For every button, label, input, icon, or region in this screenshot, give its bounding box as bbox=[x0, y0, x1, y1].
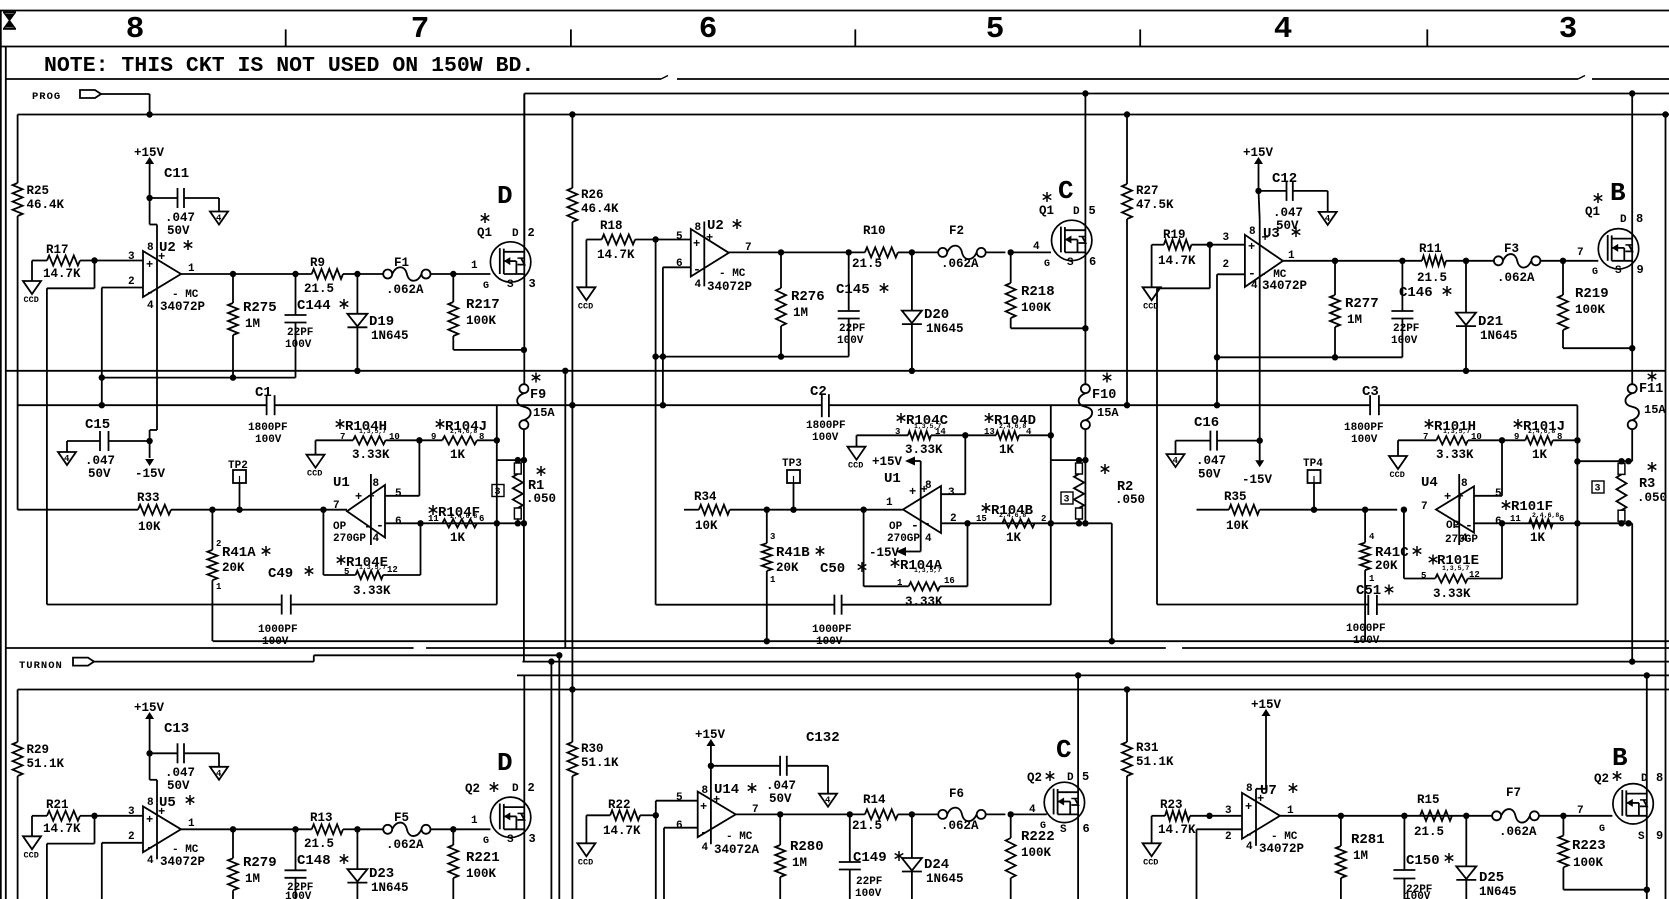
svg-text:50V: 50V bbox=[88, 467, 111, 481]
svg-text:U1: U1 bbox=[333, 475, 350, 491]
svg-text:21.5: 21.5 bbox=[304, 837, 334, 851]
transistor Q1 (C) bbox=[1046, 192, 1048, 202]
svg-text:4: 4 bbox=[216, 769, 222, 779]
svg-text:21.5: 21.5 bbox=[852, 819, 882, 833]
svg-text:100K: 100K bbox=[1573, 856, 1604, 870]
svg-text:3: 3 bbox=[1064, 495, 1070, 506]
interchange vertical x=551.4 bbox=[550, 662, 552, 899]
svg-text:1M: 1M bbox=[792, 856, 807, 870]
svg-text:2: 2 bbox=[216, 539, 221, 549]
svg-text:R41A: R41A bbox=[222, 545, 256, 561]
svg-text:-15V: -15V bbox=[869, 546, 900, 560]
feedback loop left leg (B) bbox=[1209, 245, 1211, 289]
svg-text:-: - bbox=[146, 285, 154, 300]
svg-text:21.5: 21.5 bbox=[1414, 825, 1444, 839]
svg-text:CCD: CCD bbox=[578, 857, 593, 867]
resistor R29 bbox=[13, 742, 23, 776]
svg-text:+: + bbox=[1457, 490, 1464, 504]
bottom rail y=604.5 (B) bbox=[1157, 604, 1368, 606]
svg-text:R30: R30 bbox=[581, 742, 604, 756]
rail y=357.3 (B) bbox=[1217, 356, 1402, 358]
svg-text:+: + bbox=[146, 258, 153, 272]
svg-text:CCD: CCD bbox=[24, 850, 39, 860]
svg-text:R219: R219 bbox=[1575, 286, 1609, 302]
svg-text:R281: R281 bbox=[1351, 832, 1385, 848]
svg-text:.062A: .062A bbox=[386, 838, 424, 852]
svg-text:100V: 100V bbox=[255, 434, 282, 446]
svg-text:8: 8 bbox=[373, 478, 380, 490]
svg-text:50V: 50V bbox=[769, 792, 792, 806]
svg-text:1,3,5,7: 1,3,5,7 bbox=[914, 567, 941, 574]
svg-text:G: G bbox=[1044, 259, 1050, 270]
svg-text:C13: C13 bbox=[164, 721, 189, 737]
svg-text:8: 8 bbox=[147, 797, 154, 809]
bus y=371 source rail bbox=[6, 370, 1666, 372]
svg-text:21.5: 21.5 bbox=[304, 282, 334, 296]
op-amp U3 bbox=[1245, 235, 1283, 287]
svg-text:4: 4 bbox=[64, 454, 70, 464]
CCD ground for R21 bbox=[31, 816, 33, 837]
svg-text:1K: 1K bbox=[1530, 531, 1546, 545]
feedback loop left leg bbox=[94, 261, 96, 289]
svg-text:1: 1 bbox=[471, 260, 478, 272]
resistor R25 bbox=[13, 183, 23, 216]
svg-text:3.33K: 3.33K bbox=[1436, 448, 1474, 462]
svg-text:.062A: .062A bbox=[1497, 271, 1535, 285]
node bus-to-R25 vertical bbox=[17, 115, 19, 184]
svg-text:4: 4 bbox=[1325, 214, 1331, 224]
feedback left leg (bottom D) bbox=[94, 816, 96, 844]
fuse F9 bbox=[519, 384, 528, 393]
svg-text:G: G bbox=[483, 836, 489, 847]
svg-text:15A: 15A bbox=[1097, 406, 1119, 420]
svg-text:9: 9 bbox=[1656, 829, 1663, 843]
op-amp U2 bbox=[143, 251, 181, 297]
svg-text:C16: C16 bbox=[1194, 415, 1219, 431]
svg-text:100K: 100K bbox=[1021, 846, 1052, 860]
resistor R219 bbox=[1560, 258, 1566, 264]
svg-text:50V: 50V bbox=[167, 224, 190, 238]
resistor R223 bbox=[1560, 813, 1566, 819]
svg-text:+: + bbox=[1257, 792, 1264, 806]
svg-text:+: + bbox=[1248, 240, 1255, 254]
svg-text:100V: 100V bbox=[1353, 635, 1380, 647]
svg-text:D23: D23 bbox=[369, 866, 394, 882]
svg-text:20K: 20K bbox=[1375, 559, 1398, 573]
svg-text:+: + bbox=[921, 483, 928, 497]
svg-text:6: 6 bbox=[479, 514, 484, 524]
svg-text:F6: F6 bbox=[949, 787, 964, 801]
X line end corner to R101J node bbox=[1576, 405, 1578, 440]
resistor R281 bbox=[1340, 816, 1342, 846]
svg-text:C1: C1 bbox=[255, 385, 272, 401]
svg-text:.047: .047 bbox=[85, 454, 115, 468]
svg-text:1000PF: 1000PF bbox=[258, 624, 298, 636]
svg-text:34072P: 34072P bbox=[1262, 279, 1307, 293]
svg-text:100V: 100V bbox=[1391, 335, 1418, 347]
inverting vertical x=662.9 (C) bbox=[662, 267, 664, 405]
svg-text:6: 6 bbox=[1559, 514, 1564, 524]
svg-text:CCD: CCD bbox=[578, 301, 593, 311]
wire R23 to U7 pin3 bbox=[1206, 813, 1212, 819]
svg-text:7: 7 bbox=[411, 12, 430, 47]
svg-text:Q1: Q1 bbox=[1039, 204, 1054, 218]
svg-text:2,4,6,8: 2,4,6,8 bbox=[450, 513, 477, 520]
svg-text:R29: R29 bbox=[27, 743, 50, 757]
svg-text:22PF: 22PF bbox=[287, 327, 313, 339]
X line corner and feedback vertical (D) bbox=[494, 437, 500, 443]
svg-text:D21: D21 bbox=[1478, 314, 1503, 330]
Q2B drain/source on x=1646.8 bbox=[1644, 672, 1650, 678]
svg-text:S: S bbox=[1067, 257, 1074, 269]
svg-text:14.7K: 14.7K bbox=[1158, 823, 1196, 837]
svg-text:R3: R3 bbox=[1639, 477, 1655, 492]
svg-text:7: 7 bbox=[1577, 247, 1584, 259]
svg-text:9: 9 bbox=[1637, 263, 1644, 277]
resistor R217 bbox=[450, 271, 456, 277]
diode D25 bbox=[1463, 813, 1469, 819]
svg-text:S: S bbox=[1638, 831, 1645, 843]
svg-text:10: 10 bbox=[389, 432, 400, 442]
resistor R30 bbox=[567, 742, 577, 776]
svg-text:+: + bbox=[706, 231, 713, 245]
svg-text:C11: C11 bbox=[164, 166, 189, 182]
svg-text:1800PF: 1800PF bbox=[248, 422, 288, 434]
hourglass revision mark bbox=[3, 12, 16, 29]
svg-text:5: 5 bbox=[1089, 204, 1096, 218]
svg-text:100V: 100V bbox=[262, 636, 289, 648]
svg-text:C144: C144 bbox=[297, 298, 331, 314]
interchange vertical x=523.9 bbox=[523, 523, 525, 661]
resistor R41C bbox=[1362, 507, 1368, 513]
fuse F11 bbox=[1628, 384, 1637, 393]
svg-text:22PF: 22PF bbox=[839, 323, 865, 335]
svg-text:1N645: 1N645 bbox=[1480, 329, 1518, 343]
svg-text:1N645: 1N645 bbox=[371, 329, 409, 343]
svg-text:6: 6 bbox=[1083, 822, 1090, 836]
svg-text:D: D bbox=[512, 783, 519, 795]
svg-text:.062A: .062A bbox=[941, 819, 979, 833]
svg-text:3: 3 bbox=[1223, 232, 1230, 244]
svg-text:D: D bbox=[512, 228, 519, 240]
drain bus y=93.5 bbox=[524, 93, 1669, 95]
svg-text:D20: D20 bbox=[924, 307, 949, 323]
svg-text:1N645: 1N645 bbox=[1479, 885, 1517, 899]
svg-text:S: S bbox=[507, 834, 514, 846]
svg-text:6: 6 bbox=[1089, 255, 1096, 269]
svg-text:- MC: - MC bbox=[726, 831, 753, 843]
svg-text:13: 13 bbox=[984, 427, 995, 437]
node bus-to-R27 vertical bbox=[1124, 111, 1130, 117]
svg-text:3: 3 bbox=[1595, 484, 1601, 495]
svg-text:R25: R25 bbox=[27, 184, 50, 198]
svg-text:21.5: 21.5 bbox=[852, 257, 882, 271]
svg-text:5: 5 bbox=[986, 12, 1005, 47]
svg-text:22PF: 22PF bbox=[1393, 323, 1419, 335]
diode D21 bbox=[1463, 258, 1469, 264]
svg-text:15: 15 bbox=[976, 514, 987, 524]
svg-text:20K: 20K bbox=[776, 561, 799, 575]
svg-text:6: 6 bbox=[676, 258, 683, 270]
svg-text:4: 4 bbox=[373, 533, 380, 545]
svg-text:8: 8 bbox=[702, 785, 709, 797]
svg-text:4: 4 bbox=[1033, 241, 1040, 253]
svg-text:1,3,5,7: 1,3,5,7 bbox=[359, 564, 386, 571]
output wire U14 pin7 bbox=[736, 813, 865, 815]
svg-text:15A: 15A bbox=[1644, 403, 1666, 417]
svg-text:5: 5 bbox=[1082, 770, 1089, 784]
bottom rail y=604.7 (C) bbox=[656, 604, 835, 606]
svg-text:4: 4 bbox=[925, 533, 932, 545]
sense resistor R1 bbox=[523, 429, 525, 523]
diode D23 bbox=[354, 826, 360, 832]
svg-text:2: 2 bbox=[528, 226, 535, 240]
node bus-to-R31 vertical bbox=[1124, 686, 1130, 692]
wire F7 to Q2B gate bbox=[1563, 815, 1612, 817]
svg-text:R277: R277 bbox=[1345, 296, 1379, 312]
svg-text:8: 8 bbox=[1461, 478, 1468, 490]
svg-text:-: - bbox=[693, 262, 701, 277]
svg-text:R41B: R41B bbox=[776, 545, 810, 561]
svg-text:1K: 1K bbox=[999, 443, 1015, 457]
svg-text:.047: .047 bbox=[165, 766, 195, 780]
interchange vertical x=559.3 bbox=[558, 655, 560, 899]
svg-text:1000PF: 1000PF bbox=[812, 624, 852, 636]
line y=661.6 bbox=[522, 661, 1669, 663]
svg-text:U1: U1 bbox=[884, 471, 901, 487]
svg-text:34072P: 34072P bbox=[707, 280, 752, 294]
svg-text:5: 5 bbox=[344, 567, 349, 577]
svg-text:C2: C2 bbox=[810, 384, 827, 400]
resistor R41A bbox=[209, 507, 215, 513]
wire +15 to U5 pin8 bbox=[149, 753, 151, 780]
svg-text:4: 4 bbox=[1029, 804, 1036, 816]
svg-text:7: 7 bbox=[340, 432, 345, 442]
sense resistor R3 bbox=[1631, 429, 1633, 461]
transistor Q1 top D bbox=[484, 213, 486, 223]
X line y=405.2 bbox=[18, 404, 267, 406]
svg-text:100K: 100K bbox=[466, 314, 497, 328]
svg-text:10K: 10K bbox=[695, 519, 718, 533]
rail y=356.6 (C) bbox=[656, 356, 849, 358]
svg-text:D: D bbox=[1073, 206, 1080, 218]
-15V arrow (B) bbox=[1259, 441, 1261, 461]
svg-text:Q2: Q2 bbox=[1594, 772, 1609, 786]
svg-text:R10: R10 bbox=[863, 224, 886, 238]
svg-text:1M: 1M bbox=[245, 872, 260, 886]
svg-text:R218: R218 bbox=[1021, 284, 1055, 300]
block C box left vertical bbox=[523, 94, 525, 241]
svg-text:G: G bbox=[1592, 267, 1598, 278]
svg-text:1M: 1M bbox=[245, 317, 260, 331]
svg-text:1: 1 bbox=[886, 497, 893, 509]
zone ticks bbox=[285, 29, 287, 46]
svg-text:C132: C132 bbox=[806, 730, 840, 746]
svg-text:8: 8 bbox=[1656, 771, 1663, 785]
svg-text:R222: R222 bbox=[1021, 829, 1055, 845]
svg-text:D: D bbox=[497, 181, 513, 211]
svg-text:46.4K: 46.4K bbox=[27, 198, 65, 212]
svg-text:+: + bbox=[1444, 490, 1451, 504]
diode D24 bbox=[909, 811, 915, 817]
svg-text:14.7K: 14.7K bbox=[603, 824, 641, 838]
CCD ground for R101H bbox=[1397, 440, 1399, 456]
svg-text:R280: R280 bbox=[790, 839, 824, 855]
svg-text:14.7K: 14.7K bbox=[43, 267, 81, 281]
svg-text:6: 6 bbox=[395, 516, 402, 528]
svg-text:.050: .050 bbox=[1115, 493, 1145, 507]
noninv node vertical x=655.6 bbox=[655, 240, 657, 605]
ground 4 for C12 bbox=[1319, 212, 1337, 225]
fuse F10 bbox=[1081, 384, 1090, 393]
svg-text:NOTE: THIS CKT IS NOT USED ON: NOTE: THIS CKT IS NOT USED ON 150W BD. bbox=[44, 54, 534, 78]
svg-text:5: 5 bbox=[1421, 571, 1426, 581]
wire R17 to U2 pin3 bbox=[91, 257, 97, 263]
svg-text:C148: C148 bbox=[297, 853, 331, 869]
svg-text:8: 8 bbox=[1557, 432, 1562, 442]
svg-text:100K: 100K bbox=[1021, 301, 1052, 315]
svg-text:-15V: -15V bbox=[1242, 473, 1273, 487]
svg-text:1800PF: 1800PF bbox=[806, 420, 846, 432]
sheet header bottom line bbox=[0, 46, 1669, 48]
resistor R26 bbox=[567, 188, 577, 222]
svg-text:OP: OP bbox=[889, 521, 903, 533]
svg-text:R223: R223 bbox=[1572, 838, 1606, 854]
svg-text:-15V: -15V bbox=[135, 467, 166, 481]
svg-text:C: C bbox=[1056, 735, 1072, 765]
svg-text:B: B bbox=[1612, 743, 1628, 773]
svg-text:4: 4 bbox=[695, 279, 702, 291]
svg-text:5: 5 bbox=[395, 488, 402, 500]
svg-text:D19: D19 bbox=[369, 314, 394, 330]
svg-text:1,3,5,7: 1,3,5,7 bbox=[1443, 428, 1470, 435]
svg-text:-: - bbox=[700, 825, 708, 840]
Q2C drain-source vertical bbox=[1075, 672, 1081, 678]
left border outer bbox=[0, 11, 2, 899]
svg-text:F7: F7 bbox=[1506, 786, 1521, 800]
svg-text:R14: R14 bbox=[863, 793, 886, 807]
svg-text:+: + bbox=[693, 237, 700, 251]
wire F6 to Q2C gate bbox=[1011, 813, 1047, 815]
wire R22 to U14 pin5 bbox=[653, 812, 659, 818]
wire TURNON net bbox=[94, 661, 314, 663]
wire F3 to Q1B gate bbox=[1563, 260, 1598, 262]
Q1C drain-source vertical bbox=[1082, 90, 1088, 96]
svg-text:51.1K: 51.1K bbox=[1136, 755, 1174, 769]
svg-text:1K: 1K bbox=[450, 531, 466, 545]
svg-text:10: 10 bbox=[1471, 432, 1482, 442]
svg-text:-: - bbox=[1245, 827, 1253, 842]
svg-text:50V: 50V bbox=[167, 779, 190, 793]
feedback vertical (B) bbox=[1574, 437, 1580, 443]
resistor network R104D bbox=[988, 413, 990, 423]
svg-text:C49: C49 bbox=[268, 566, 293, 582]
svg-text:34072P: 34072P bbox=[160, 300, 205, 314]
op-amp U2* (C) bbox=[691, 229, 729, 277]
wire +15 to U2 pin8 bbox=[149, 198, 151, 225]
svg-text:2,4,6,8: 2,4,6,8 bbox=[450, 428, 477, 435]
line y=641.2 bbox=[213, 640, 1669, 642]
svg-text:+: + bbox=[158, 250, 165, 264]
CCD ground for R17 bbox=[31, 261, 33, 282]
svg-text:+15V: +15V bbox=[695, 728, 726, 742]
resistor R277 bbox=[1334, 261, 1336, 295]
svg-text:TP4: TP4 bbox=[1303, 458, 1323, 470]
svg-text:3.33K: 3.33K bbox=[905, 595, 943, 609]
svg-text:.062A: .062A bbox=[386, 283, 424, 297]
svg-text:+: + bbox=[368, 490, 375, 504]
svg-text:CCD: CCD bbox=[24, 295, 39, 305]
noninv vertical (bottom C) bbox=[655, 815, 657, 899]
right edge vertical x=1646.8 bottom bbox=[1646, 675, 1648, 899]
svg-text:10K: 10K bbox=[138, 520, 161, 534]
svg-text:12: 12 bbox=[387, 565, 398, 575]
svg-text:.062A: .062A bbox=[941, 257, 979, 271]
svg-text:-: - bbox=[376, 518, 384, 533]
svg-text:3: 3 bbox=[128, 806, 135, 818]
note underline wire bbox=[6, 78, 661, 80]
resistor R276 bbox=[780, 252, 782, 288]
svg-text:+: + bbox=[355, 490, 362, 504]
svg-text:R18: R18 bbox=[600, 219, 623, 233]
resistor network R104A bbox=[894, 558, 896, 568]
svg-text:100V: 100V bbox=[1351, 434, 1378, 446]
CCD ground for R22 bbox=[585, 815, 587, 843]
Q1B drain-source vertical bbox=[1629, 90, 1635, 96]
svg-text:Q2: Q2 bbox=[465, 782, 480, 796]
svg-text:OP: OP bbox=[333, 521, 347, 533]
diode D20 bbox=[909, 249, 915, 255]
CCD ground for R19 bbox=[1151, 245, 1153, 288]
net box 3 (C) bbox=[1061, 492, 1073, 504]
svg-text:+: + bbox=[700, 800, 707, 814]
svg-text:D: D bbox=[1067, 772, 1074, 784]
resistor R222 bbox=[1008, 811, 1014, 817]
svg-text:1M: 1M bbox=[1353, 849, 1368, 863]
wire F5 to Q2 gate bbox=[453, 828, 490, 830]
svg-text:OP: OP bbox=[1446, 520, 1460, 532]
svg-text:46.4K: 46.4K bbox=[581, 202, 619, 216]
op-amp U14 bbox=[698, 792, 736, 838]
svg-text:4: 4 bbox=[1369, 532, 1375, 542]
resistor R41B bbox=[764, 507, 770, 513]
inverting node vertical x=101.8 bbox=[101, 288, 103, 406]
svg-text:G: G bbox=[1040, 821, 1046, 832]
svg-text:15A: 15A bbox=[533, 406, 555, 420]
svg-text:100V: 100V bbox=[855, 888, 882, 899]
svg-text:3: 3 bbox=[1225, 805, 1232, 817]
ground 4 for C16 bbox=[1175, 441, 1177, 455]
svg-text:1K: 1K bbox=[450, 448, 466, 462]
svg-text:-: - bbox=[911, 518, 919, 533]
svg-text:4: 4 bbox=[1274, 12, 1293, 47]
svg-text:R279: R279 bbox=[243, 855, 277, 871]
svg-text:1: 1 bbox=[216, 582, 222, 592]
resistor R221 bbox=[450, 826, 456, 832]
svg-text:34072P: 34072P bbox=[1259, 842, 1304, 856]
svg-text:47.5K: 47.5K bbox=[1136, 198, 1174, 212]
svg-text:R26: R26 bbox=[581, 188, 604, 202]
node bus-to-R26 vertical bbox=[569, 111, 575, 117]
svg-text:3.33K: 3.33K bbox=[905, 443, 943, 457]
svg-text:F11: F11 bbox=[1639, 382, 1663, 397]
wire R19 to U3 pin3 bbox=[1207, 242, 1213, 248]
svg-text:+: + bbox=[146, 813, 153, 827]
svg-text:5: 5 bbox=[676, 792, 683, 804]
svg-text:1000PF: 1000PF bbox=[1346, 623, 1386, 635]
svg-text:14.7K: 14.7K bbox=[43, 822, 81, 836]
svg-text:1800PF: 1800PF bbox=[1344, 422, 1384, 434]
